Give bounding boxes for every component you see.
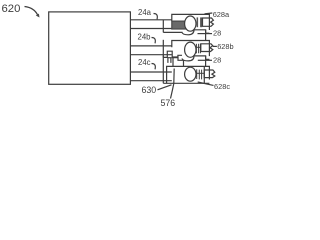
leader 630	[158, 85, 172, 90]
svg-text:28: 28	[213, 29, 221, 38]
bottom contour b	[182, 56, 209, 61]
module box 620	[49, 12, 131, 84]
contact bar c2	[199, 70, 201, 80]
wire 24a top	[130, 19, 171, 21]
plug body a	[203, 18, 214, 26]
contact bar b1	[195, 44, 197, 54]
harness vertical c	[162, 56, 164, 84]
svg-text:576: 576	[161, 98, 176, 108]
svg-text:28: 28	[213, 56, 221, 65]
wire 24b top	[130, 45, 171, 47]
wire 24c bottom	[130, 80, 171, 82]
bulb ellipse b	[185, 42, 196, 57]
leader 28 (b)	[198, 59, 212, 61]
housing a	[172, 14, 210, 30]
contact bar b2	[199, 44, 201, 54]
svg-text:628b: 628b	[217, 42, 233, 51]
squiggle 24a	[154, 14, 158, 20]
contact bar c1	[196, 69, 198, 79]
base bump c tall	[173, 57, 184, 66]
connector line c	[196, 72, 205, 74]
connector line b	[196, 46, 202, 48]
plug body c	[204, 70, 215, 78]
harness vertical b	[162, 40, 164, 58]
leader 576	[171, 69, 175, 99]
leader 628a	[205, 12, 213, 15]
wire 24c top	[130, 71, 171, 73]
contact bar a1	[197, 17, 199, 27]
socket vertical c	[203, 66, 205, 83]
contact bar a2	[200, 17, 202, 27]
housing c	[167, 66, 210, 83]
leader 628c	[198, 82, 214, 85]
svg-text:620: 620	[2, 3, 21, 15]
svg-text:628a: 628a	[213, 10, 230, 19]
svg-text:24c: 24c	[138, 58, 151, 67]
leader 628b	[213, 45, 217, 47]
plug body b	[201, 44, 213, 52]
squiggle 24c	[152, 64, 156, 70]
inter vertical b-c	[205, 56, 207, 67]
socket block a (dark)	[172, 21, 186, 29]
socket step b	[163, 51, 182, 57]
wire 24b bottom	[130, 54, 171, 56]
base bump c small	[168, 58, 171, 63]
svg-text:630: 630	[142, 85, 157, 95]
bottom contour a	[163, 30, 209, 35]
leader 28 (a)	[198, 33, 213, 35]
inter vertical a-b	[205, 30, 207, 41]
squiggle 24b	[152, 38, 156, 44]
bulb ellipse a	[185, 16, 196, 31]
harness vertical a	[162, 20, 164, 33]
wire 24a bottom	[130, 28, 171, 30]
svg-text:24b: 24b	[138, 33, 152, 42]
bulb ellipse c	[185, 67, 196, 81]
bottom contour c	[163, 82, 209, 84]
housing b	[172, 41, 210, 57]
svg-text:24a: 24a	[138, 8, 152, 17]
leader arrow from 620 to box	[25, 7, 38, 16]
svg-text:628c: 628c	[214, 82, 230, 91]
